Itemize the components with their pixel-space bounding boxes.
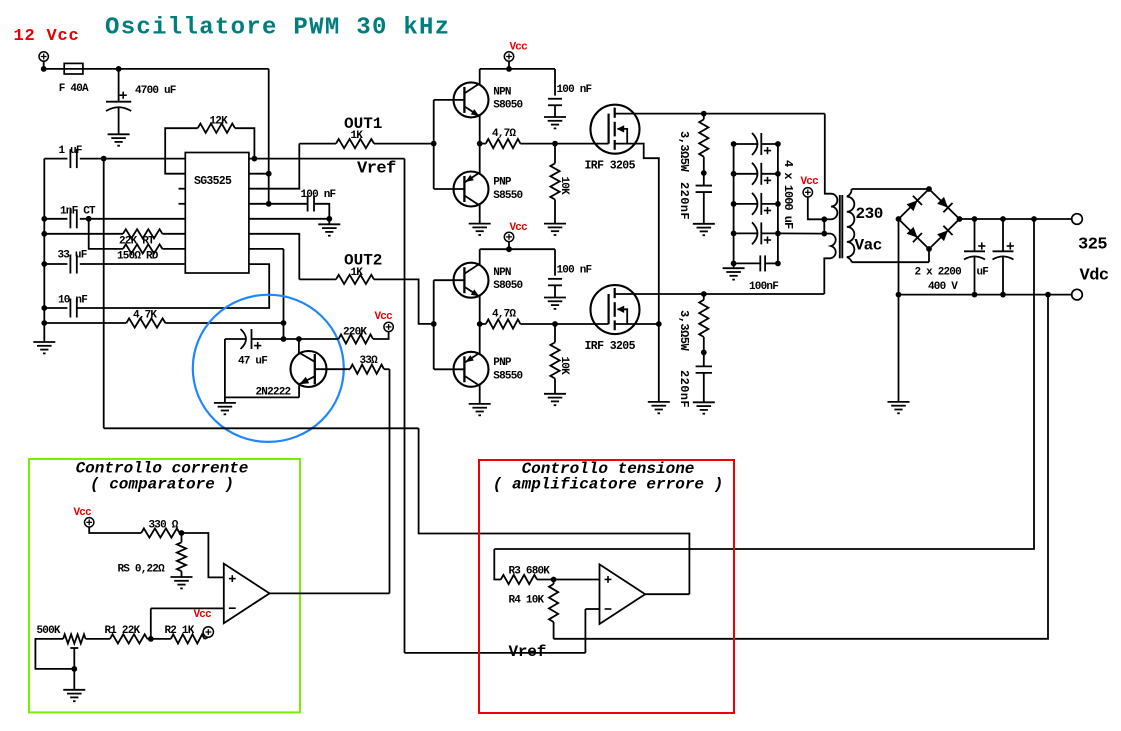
svg-text:100 nF: 100 nF (301, 189, 336, 201)
blue highlight circle (193, 295, 344, 442)
svg-text:400 V: 400 V (928, 281, 958, 293)
capacitor 1000 uF #3 (734, 203, 757, 205)
svg-text:3,3Ω5W: 3,3Ω5W (677, 310, 691, 352)
junctions 1000uF #1 (731, 141, 737, 147)
transformer core (839, 195, 841, 258)
wire - input comparator (151, 607, 224, 609)
wire Vcc rail pair1 (508, 61, 510, 69)
resistor 150 Ohm RD (123, 244, 162, 253)
svg-text:PNP: PNP (493, 177, 512, 189)
diode D3 bridge bottom-left (899, 219, 930, 249)
green box comparator (29, 459, 300, 712)
Vcc terminal pair1 (504, 52, 513, 61)
svg-text:R1 22K: R1 22K (105, 625, 141, 637)
svg-text:330 Ω: 330 Ω (149, 520, 179, 532)
junction 330/RS (179, 530, 185, 536)
resistor 330 Ohm (141, 528, 179, 537)
bridge corner junctions (926, 186, 932, 192)
junction pin 13 (266, 201, 272, 207)
capacitor 47 uF (225, 338, 246, 340)
ground potentiometer (73, 669, 75, 690)
wire CT to RD row (89, 219, 123, 249)
pot wiper (73, 648, 75, 669)
capacitor 100 nF pair2 (554, 249, 556, 276)
svg-text:R4 10K: R4 10K (509, 595, 545, 607)
ground 10K pair2 (544, 393, 566, 395)
resistor R2 1K (151, 638, 171, 640)
wire - input error amp to Vref (585, 608, 599, 610)
svg-text:4,7Ω: 4,7Ω (492, 308, 516, 320)
wire sense + down to error amp R3 (494, 219, 1034, 549)
wire feedback to error amp output (419, 428, 690, 594)
junctions 1000uF #4 (731, 231, 737, 237)
transformer T1 primary upper half (825, 114, 831, 194)
junction gnd pin (326, 216, 332, 222)
resistor 4,7 Ohm pair1 (480, 143, 486, 145)
resistor R4 10K (553, 580, 555, 585)
capacitor 100 nF at pin13 (269, 203, 308, 205)
wire bank to center tap (778, 232, 824, 234)
svg-text:NPN: NPN (493, 87, 511, 99)
wire Vcc feed down to SG3525 pins 15/13 (268, 69, 270, 204)
svg-text:230: 230 (856, 205, 883, 223)
svg-text:SG3525: SG3525 (194, 175, 232, 188)
ground 10K pair1 (544, 223, 566, 225)
rail junction 4,7K (41, 320, 47, 326)
wire bridge negative leg (898, 219, 900, 402)
wire drain 1 rail (615, 113, 825, 115)
svg-text:3,3Ω5W: 3,3Ω5W (677, 131, 691, 173)
capacitor 10 nF (44, 307, 67, 309)
Vcc terminal pair2 (504, 232, 513, 241)
wire SG3525 ground pin12 (249, 218, 329, 220)
svg-text:IRF 3205: IRF 3205 (585, 340, 636, 353)
svg-text:4,7K: 4,7K (133, 310, 157, 322)
junction negative rail (896, 292, 902, 298)
junction pot/ground (71, 666, 77, 672)
svg-text:R2 1K: R2 1K (165, 625, 195, 637)
svg-text:220nF: 220nF (677, 370, 691, 408)
resistor 1K on OUT1 (299, 143, 336, 145)
svg-text:100 nF: 100 nF (557, 264, 592, 276)
wire SG3525 pin16 Vref to right (249, 158, 405, 160)
svg-text:uF: uF (977, 267, 989, 279)
wire 47uF node row (252, 338, 339, 340)
junction drain2 / snubber (701, 291, 707, 297)
svg-text:10 nF: 10 nF (58, 295, 87, 307)
IC U1 SG3525 (185, 153, 249, 274)
diode D4 bridge bottom-right (929, 219, 960, 249)
junction Vcc rail pair1 (506, 66, 512, 72)
resistor 3,3 Ohm 5W snubber 2 (703, 294, 705, 300)
resistor 33 Ohm (350, 365, 384, 374)
red box error amplifier (479, 460, 734, 713)
ground negative rail (888, 401, 910, 403)
resistor 4,7K (44, 322, 126, 324)
wire pin15 to Vcc feed (249, 173, 269, 175)
wire cap bank left rail (733, 144, 735, 263)
wire DC- rail (899, 294, 1072, 296)
wire Vref horizontal to error amp (405, 652, 586, 654)
capacitor 100 nF pair1 (554, 69, 556, 96)
svg-text:Vcc: Vcc (510, 222, 528, 234)
transistor Q4 PNP S8550 (454, 352, 489, 387)
Vcc terminal center tap (803, 188, 812, 197)
junction gate node 1 (552, 141, 558, 147)
rail junction RT (41, 231, 47, 237)
junction center tap upper (821, 216, 827, 222)
diode D2 bridge top-right (929, 189, 960, 219)
svg-text:( comparatore ): ( comparatore ) (90, 476, 234, 494)
op-amp U3 error amplifier (600, 564, 646, 624)
svg-text:12K: 12K (210, 116, 229, 128)
wire common source to ground (658, 324, 660, 402)
svg-text:IRF 3205: IRF 3205 (585, 160, 636, 173)
capacitor 220nF snubber 1 (703, 173, 705, 186)
op-amp U2 comparator (224, 564, 270, 624)
capacitor 4700 uF (118, 69, 120, 102)
node dot at input corner (41, 66, 47, 72)
wire error amp output (645, 593, 689, 595)
junction 4,7K / pin9 riser (281, 320, 287, 326)
wire source 1 to common source (615, 144, 659, 324)
resistor R3 680K (494, 549, 501, 580)
capacitor 1nF CT (44, 218, 67, 220)
junction R1/R2/- input (148, 636, 154, 642)
junction base node (296, 336, 302, 342)
wire pin13 to Vcc feed (249, 203, 269, 205)
wire pin10 wrap to 10nF (77, 264, 270, 308)
fuse F 40A (64, 68, 83, 70)
resistor 10K pair1 (554, 144, 556, 164)
transistor Q5 2N2222 (291, 351, 327, 387)
ground below PNP pair2 (469, 403, 491, 405)
junction 47uF node (281, 336, 287, 342)
svg-text:1 uF: 1 uF (59, 145, 82, 157)
svg-text:12 Vcc: 12 Vcc (14, 27, 80, 46)
resistor 4,7 Ohm pair2 (480, 323, 486, 325)
resistor R1 22K (86, 638, 110, 640)
output terminal + 325Vdc (1072, 214, 1083, 225)
wire 47uF left leg to ground (225, 339, 299, 397)
transistor Q2 PNP S8550 (454, 172, 489, 207)
ground 100nF pair2 (544, 297, 566, 299)
junction emitters pair2 (477, 321, 483, 327)
wire cap bank right rail (777, 144, 779, 263)
svg-text:2N2222: 2N2222 (256, 387, 291, 399)
resistor 220K (339, 334, 374, 343)
svg-text:Vcc: Vcc (375, 311, 393, 323)
svg-text:4700 uF: 4700 uF (135, 85, 176, 97)
wire Vcc rail pair2 (508, 242, 510, 250)
svg-text:NPN: NPN (493, 267, 511, 279)
wire comparator output net vertical (389, 369, 391, 593)
junction pin 15 (266, 171, 272, 177)
svg-text:F 40A: F 40A (59, 83, 89, 95)
svg-text:150Ω RD: 150Ω RD (117, 250, 159, 262)
svg-text:Vdc: Vdc (1080, 267, 1109, 286)
junction OUT1 to driver bases (431, 141, 437, 147)
junction 1uF / feedback riser (101, 156, 107, 162)
Vcc terminal comparator (85, 518, 94, 527)
svg-text:220nF: 220nF (677, 182, 691, 220)
unconnected stub pins left side (179, 188, 186, 190)
svg-text:PNP: PNP (493, 357, 512, 369)
junction snubber2 (701, 350, 707, 356)
svg-text:100nF: 100nF (749, 281, 778, 293)
svg-text:10K: 10K (558, 177, 570, 196)
svg-text:220K: 220K (343, 327, 367, 339)
svg-text:100 nF: 100 nF (557, 84, 592, 96)
ground left rail (33, 341, 55, 343)
ground snubber 2 (693, 401, 715, 403)
svg-text:Oscillatore PWM 30 kHz: Oscillatore PWM 30 kHz (105, 15, 450, 42)
svg-text:S8050: S8050 (493, 280, 522, 292)
wire (44, 61, 64, 69)
svg-text:1nF CT: 1nF CT (60, 206, 96, 218)
svg-text:S8050: S8050 (493, 100, 522, 112)
wire pin11 down to OUT2 (249, 234, 299, 280)
capacitor 2200uF #1 (972, 216, 978, 222)
junctions 1000uF #3 (731, 201, 737, 207)
junction CT node (86, 216, 92, 222)
diode D1 bridge top-left (899, 189, 930, 219)
junction drain1 / snubber (701, 111, 707, 117)
svg-text:Vcc: Vcc (510, 42, 528, 54)
wire comparator output (270, 592, 390, 594)
junction emitters pair1 (477, 141, 483, 147)
rail junction 1nF (41, 216, 47, 222)
transformer T1 secondary winding (847, 189, 852, 197)
svg-text:( amplificatore errore ): ( amplificatore errore ) (493, 476, 723, 494)
resistor 12K (feedback) (165, 128, 198, 174)
wire Vref vertical net (404, 159, 406, 653)
transistor Q1 NPN S8050 (454, 82, 489, 117)
wire sense - down to error amp R4 (554, 295, 1048, 639)
wire source 2 (615, 323, 659, 325)
svg-text:RS 0,22Ω: RS 0,22Ω (118, 564, 166, 576)
ground at SG3525 pin 12 (328, 219, 330, 225)
MOSFET M1 IRF 3205 (591, 105, 640, 154)
ground snubber 1 (693, 223, 715, 225)
svg-text:Vref: Vref (509, 643, 547, 661)
ground RS (171, 576, 193, 578)
wire base line pair2 (433, 280, 435, 369)
wire DC+ rail (960, 218, 1072, 220)
junction OUT2 to driver bases (431, 321, 437, 327)
capacitor 2200uF #2 (1000, 216, 1006, 222)
junction gate node 2 (552, 321, 558, 327)
ground 2N2222 emitter (224, 397, 226, 403)
transformer T1 primary lower half (823, 219, 825, 233)
svg-text:47 uF: 47 uF (238, 356, 267, 368)
output terminal - 325Vdc (1072, 289, 1083, 300)
svg-text:33 uF: 33 uF (58, 250, 87, 262)
ground 100nF pair1 (544, 116, 566, 118)
junction snubber1 (701, 170, 707, 176)
capacitor 1000 uF #4 (734, 232, 757, 234)
wire secondary bottom to bridge (852, 261, 929, 263)
wire top rail to Vcc pins (83, 68, 269, 70)
wire pin14 up to OUT1 (249, 144, 299, 189)
junction center tap lower (821, 231, 827, 237)
ground cap bank (733, 263, 735, 268)
wire drain 2 rail (615, 293, 825, 295)
potentiometer 500K (63, 634, 86, 643)
wire secondary top to bridge (852, 188, 929, 190)
wire to + input (180, 533, 224, 577)
ground below PNP pair1 (469, 223, 491, 225)
svg-text:500K: 500K (37, 625, 61, 637)
junction 12K to Vref pin (252, 156, 258, 162)
junction common source (656, 321, 662, 327)
capacitor 220nF snubber 2 (703, 352, 705, 366)
Vcc terminal R2 (203, 627, 213, 637)
svg-text:33Ω: 33Ω (360, 355, 379, 367)
resistor 1K on OUT2 (299, 278, 336, 280)
wire base line pair1 (433, 100, 435, 189)
svg-text:Vref: Vref (357, 160, 396, 179)
wire feedback riser (error amp output net) (103, 159, 105, 429)
wire Vcc to center tap (808, 197, 825, 219)
wire pin9 riser down to 47uF node (283, 249, 285, 339)
svg-text:Vcc: Vcc (801, 176, 819, 188)
Vcc supply terminal (12V input) (39, 52, 48, 61)
transistor Q3 NPN S8050 (454, 263, 489, 298)
svg-text:325: 325 (1078, 236, 1107, 255)
resistor RS 0,22 Ohm (181, 533, 183, 542)
MOSFET M2 IRF 3205 (591, 285, 640, 334)
svg-text:R3 680K: R3 680K (509, 566, 551, 578)
svg-text:Vac: Vac (855, 237, 882, 255)
rail junction 10nF (41, 305, 47, 311)
rail junction 33uF (41, 261, 47, 267)
capacitor 100nF bank bottom (734, 262, 761, 264)
junction Vcc rail pair2 (506, 246, 512, 252)
wire gate 2 (555, 323, 609, 325)
svg-text:S8550: S8550 (493, 370, 522, 382)
junction fuse/4700uF (116, 66, 122, 72)
svg-text:10K: 10K (558, 357, 570, 376)
capacitor 1000 uF #2 (734, 173, 757, 175)
capacitor 1000 uF #1 (734, 143, 757, 145)
ground below 4700uF (108, 133, 130, 135)
svg-text:4 x 1000 uF: 4 x 1000 uF (781, 160, 795, 229)
wire to + input error amp (554, 579, 600, 581)
capacitor 1 uF (44, 158, 67, 160)
capacitor 33 uF (44, 263, 67, 265)
resistor 22K RT (44, 233, 123, 235)
svg-text:2 x 2200: 2 x 2200 (915, 267, 962, 279)
junction R3/R4/+ input (551, 577, 557, 583)
resistor 3,3 Ohm 5W snubber 1 (703, 114, 705, 120)
wire long feedback horizontal (104, 427, 419, 429)
wire gate 1 (555, 143, 609, 145)
left ground rail (43, 159, 45, 342)
wire Vcc to 330 Ohm (89, 527, 141, 533)
resistor 10K pair2 (554, 324, 556, 342)
svg-text:S8550: S8550 (493, 190, 522, 202)
svg-text:4,7Ω: 4,7Ω (492, 128, 516, 140)
ground common source (648, 401, 670, 403)
wire pin9 down to compensation node (249, 248, 284, 250)
junctions 1000uF #2 (731, 171, 737, 177)
Vcc terminal 220K (384, 322, 393, 331)
svg-text:Vcc: Vcc (194, 609, 212, 621)
